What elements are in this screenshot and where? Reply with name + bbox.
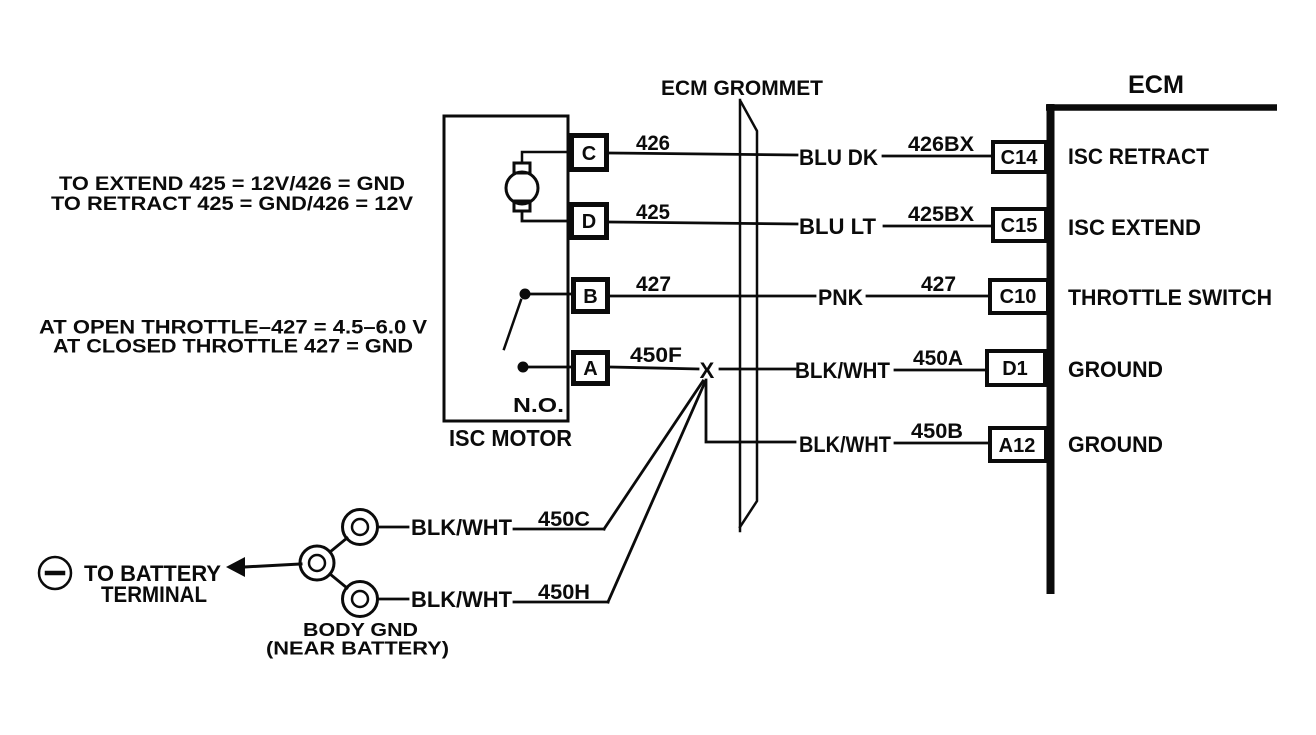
wire X down to 450B row <box>706 380 795 442</box>
svg-text:N.O.: N.O. <box>513 395 564 417</box>
arrow to battery <box>226 557 245 577</box>
svg-text:D: D <box>582 211 596 233</box>
svg-text:A12: A12 <box>999 435 1036 457</box>
ring terminal center <box>300 546 334 580</box>
svg-text:C: C <box>582 143 596 165</box>
switch blade <box>504 300 521 349</box>
svg-text:450C: 450C <box>538 508 590 531</box>
wire under 450C <box>514 528 604 531</box>
wire lower ring to BLK/WHT <box>378 598 408 601</box>
svg-text:BLK/WHT: BLK/WHT <box>799 432 892 457</box>
svg-text:ECM: ECM <box>1128 71 1184 99</box>
wire motor bottom to pin D <box>522 211 569 221</box>
pin D <box>572 205 607 238</box>
svg-text:AT CLOSED THROTTLE 427 = GND: AT CLOSED THROTTLE 427 = GND <box>53 336 413 358</box>
wire 450B to A12 <box>895 442 988 445</box>
switch N.O. <box>518 289 531 373</box>
svg-text:BLU LT: BLU LT <box>799 214 877 239</box>
wire under 450H <box>514 601 608 604</box>
svg-text:TERMINAL: TERMINAL <box>101 582 207 607</box>
svg-text:TO EXTEND 425 = 12V/426 = GND: TO EXTEND 425 = 12V/426 = GND <box>59 173 405 195</box>
svg-text:ISC RETRACT: ISC RETRACT <box>1068 144 1210 169</box>
wire motor top to pin C <box>522 152 569 163</box>
pin C10 <box>990 280 1048 313</box>
pin A12 <box>990 428 1046 461</box>
svg-text:ECM GROMMET: ECM GROMMET <box>661 77 823 100</box>
svg-text:426BX: 426BX <box>908 133 974 156</box>
svg-text:425BX: 425BX <box>908 203 974 226</box>
wire X to BLK/WHT <box>720 368 795 371</box>
svg-text:B: B <box>583 286 597 308</box>
ECM left bar <box>1047 104 1055 594</box>
svg-text:A: A <box>583 358 597 380</box>
svg-text:ISC MOTOR: ISC MOTOR <box>449 425 572 451</box>
wire 425 pin D to BLU LT <box>610 222 797 224</box>
svg-text:(NEAR BATTERY): (NEAR BATTERY) <box>266 638 449 659</box>
pin A <box>574 353 608 384</box>
svg-text:BLK/WHT: BLK/WHT <box>411 587 513 612</box>
link center-lower <box>330 574 347 588</box>
svg-text:450B: 450B <box>911 420 963 443</box>
wire 450A to D1 <box>895 369 985 372</box>
wire 450C up to X <box>604 381 703 529</box>
ISC motor box <box>444 116 568 421</box>
wire upper ring to BLK/WHT <box>378 526 408 529</box>
pin C <box>572 136 607 170</box>
svg-text:427: 427 <box>921 273 956 296</box>
ring terminal lower <box>343 582 378 617</box>
svg-text:425: 425 <box>636 201 670 224</box>
svg-text:GROUND: GROUND <box>1068 357 1163 382</box>
wire 425BX to C15 <box>884 225 991 228</box>
wire switch to pin A <box>528 366 571 369</box>
svg-text:BLK/WHT: BLK/WHT <box>411 515 513 540</box>
wire 450H up to X <box>608 382 705 602</box>
note: throttle annotation <box>39 317 427 358</box>
ECM grommet <box>739 100 742 531</box>
ECM top edge <box>1046 104 1277 111</box>
svg-text:450A: 450A <box>913 347 963 370</box>
wire 426 pin C to BLU DK <box>610 153 797 155</box>
wire switch to pin B <box>529 293 571 296</box>
link center-upper <box>330 538 347 552</box>
svg-text:PNK: PNK <box>818 285 863 310</box>
svg-text:D1: D1 <box>1002 358 1028 380</box>
svg-text:BLK/WHT: BLK/WHT <box>795 358 891 383</box>
battery minus symbol <box>39 557 71 589</box>
wire 427 pin B to PNK <box>611 295 815 298</box>
note: extend/retract annotation <box>51 173 413 215</box>
wire 427 to C10 <box>867 295 988 298</box>
motor M1 <box>506 163 538 211</box>
svg-text:C15: C15 <box>1001 215 1038 237</box>
svg-text:C14: C14 <box>1001 147 1039 169</box>
svg-text:426: 426 <box>636 132 670 155</box>
svg-text:GROUND: GROUND <box>1068 432 1163 457</box>
pin D1 <box>987 351 1045 385</box>
wire 426BX to C14 <box>883 155 991 158</box>
svg-text:BLU DK: BLU DK <box>799 145 878 170</box>
pin C15 <box>993 209 1046 241</box>
svg-text:ISC EXTEND: ISC EXTEND <box>1068 215 1201 240</box>
pin B <box>574 280 608 312</box>
svg-text:450F: 450F <box>630 344 682 367</box>
svg-text:C10: C10 <box>1000 286 1037 308</box>
ring terminal upper <box>343 510 378 545</box>
svg-text:TO RETRACT 425 = GND/426 = 12V: TO RETRACT 425 = GND/426 = 12V <box>51 193 413 215</box>
svg-text:427: 427 <box>636 273 671 296</box>
svg-text:THROTTLE SWITCH: THROTTLE SWITCH <box>1068 285 1272 310</box>
svg-text:450H: 450H <box>538 581 590 604</box>
pin C14 <box>993 142 1046 172</box>
wire 450F pin A to X <box>611 367 698 369</box>
